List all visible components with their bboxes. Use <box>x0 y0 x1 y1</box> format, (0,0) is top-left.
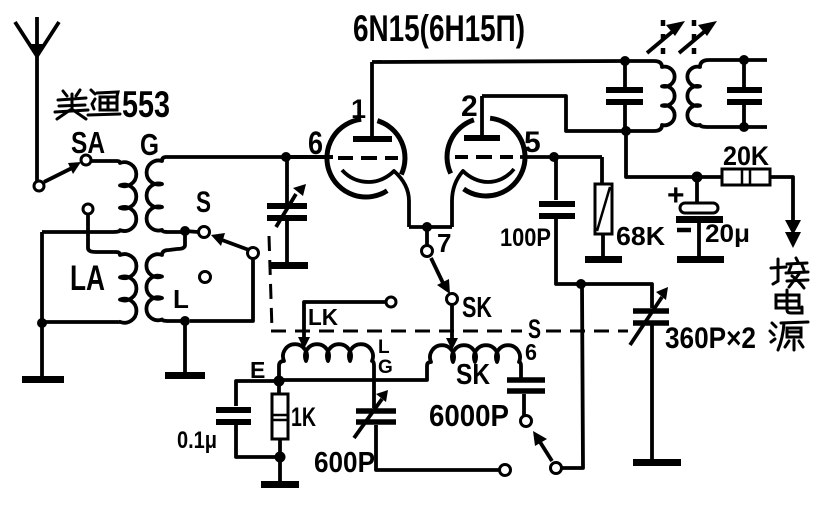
svg-text:E: E <box>250 357 265 383</box>
svg-text:20μ: 20μ <box>705 220 750 248</box>
svg-text:L: L <box>378 337 390 358</box>
svg-text:600P: 600P <box>314 447 375 479</box>
svg-text:L: L <box>173 284 189 314</box>
svg-text:6N15(6Н15П): 6N15(6Н15П) <box>353 8 525 49</box>
svg-text:+: + <box>667 179 685 212</box>
svg-text:LA: LA <box>70 259 105 298</box>
svg-text:2: 2 <box>461 90 478 123</box>
svg-text:SK: SK <box>462 292 492 324</box>
svg-text:553: 553 <box>122 84 170 125</box>
svg-text:5: 5 <box>524 126 541 159</box>
svg-text:6: 6 <box>525 339 537 365</box>
svg-text:SA: SA <box>71 125 105 160</box>
svg-text:6000P: 6000P <box>429 398 509 433</box>
svg-text:68K: 68K <box>616 221 665 251</box>
svg-text:7: 7 <box>437 228 451 258</box>
svg-text:G: G <box>378 357 393 378</box>
svg-text:SK: SK <box>456 359 490 391</box>
svg-text:S: S <box>196 186 211 219</box>
svg-text:20K: 20K <box>723 141 769 171</box>
svg-text:LK: LK <box>308 304 338 330</box>
svg-text:0.1μ: 0.1μ <box>177 427 217 454</box>
svg-text:6: 6 <box>308 125 323 161</box>
svg-text:360P×2: 360P×2 <box>665 322 756 355</box>
svg-text:1: 1 <box>351 94 366 124</box>
svg-text:G: G <box>140 127 159 162</box>
svg-text:100P: 100P <box>500 224 551 252</box>
svg-text:1K: 1K <box>291 402 316 432</box>
